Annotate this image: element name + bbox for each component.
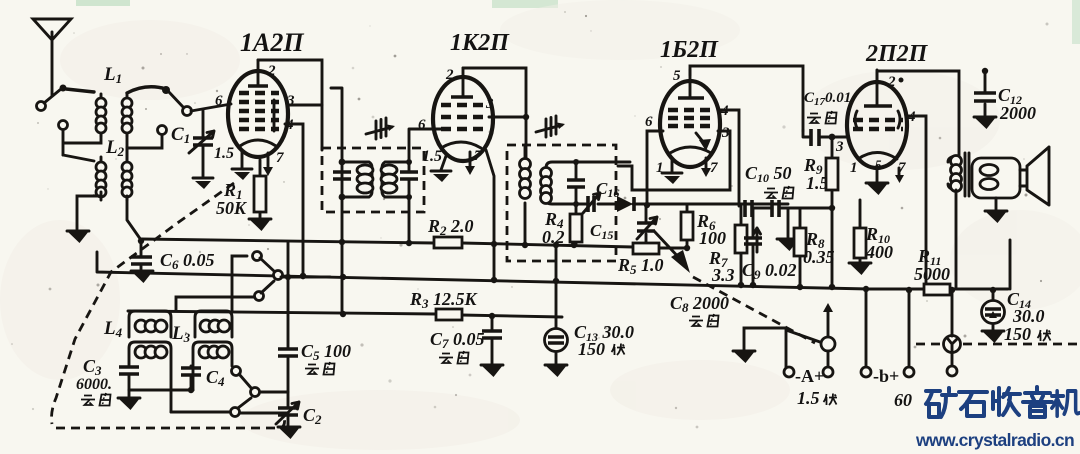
capacitor C5 [278, 242, 351, 407]
wire V1 pin4 down to AVC bus [285, 124, 306, 279]
svg-text:6: 6 [215, 93, 223, 109]
wire V4 pin7 arrow [895, 168, 904, 183]
capacitor C14 (electrolytic) [982, 289, 1045, 344]
capacitor C9 [742, 208, 797, 285]
mica label under C3 [81, 393, 111, 406]
svg-text:2: 2 [267, 63, 276, 79]
pin 3 label [286, 93, 295, 109]
wire V4 plate top [877, 71, 959, 156]
pin 3 label V3 [721, 125, 730, 141]
resistor R10 [854, 200, 893, 262]
svg-text:2: 2 [887, 74, 896, 90]
mica label under C10 [764, 186, 794, 199]
tube V2 1К2П label [450, 30, 510, 56]
svg-text:150: 150 [578, 339, 605, 359]
coil L3 secondary [193, 342, 232, 390]
resistor R9 [803, 137, 838, 287]
capacitor C17 [803, 90, 851, 146]
svg-text:7: 7 [276, 150, 284, 166]
speaker cone [1020, 147, 1049, 205]
svg-text:C8 2000: C8 2000 [670, 293, 729, 315]
wire V3 pin1 ground [662, 160, 682, 184]
wire V1 pin3 [287, 104, 322, 107]
watermark char shi 石 [959, 392, 987, 416]
resistor R4 [542, 204, 582, 247]
svg-text:C6 0.05: C6 0.05 [160, 250, 215, 272]
band switch S1a [253, 252, 331, 280]
ground under C6 [131, 271, 153, 283]
speaker magnet [972, 158, 1020, 198]
coil T2 secondary [541, 162, 631, 204]
capacitor C1 (variable) [171, 110, 214, 177]
svg-text:6: 6 [645, 114, 653, 130]
pin 4 label V3 [720, 103, 729, 119]
capacitor C10 (two series) [745, 163, 792, 217]
capacitor C3 [76, 356, 139, 393]
capacitor C-T1a [333, 172, 351, 179]
IF transformer T2 dashed box [507, 145, 616, 261]
svg-text:C170.01: C170.01 [804, 90, 851, 108]
svg-text:30.0: 30.0 [1012, 306, 1045, 326]
coil L2 [63, 137, 132, 200]
wire V3 pin7 arrow [701, 158, 711, 177]
wire V3 pins 3,4 [618, 131, 730, 190]
wire right end vertical [1009, 240, 1012, 289]
ground under C1 [193, 178, 213, 189]
wire V3 pin4 screen [719, 110, 739, 206]
ground under C14 [982, 331, 1004, 343]
svg-text:5: 5 [673, 68, 681, 84]
pin 7 label V3 [710, 160, 718, 176]
tube V1 internals [239, 60, 279, 146]
wire L1 top to grid junction [127, 86, 170, 94]
svg-text:3: 3 [286, 93, 295, 109]
svg-text:6000.: 6000. [76, 376, 112, 393]
trimmer C16 [576, 179, 619, 213]
svg-text:0.35: 0.35 [803, 247, 835, 267]
resistor R5 [617, 243, 664, 277]
coil L1 [96, 64, 132, 136]
coil L4 secondary [129, 342, 171, 412]
volt label C14 [1038, 330, 1052, 342]
svg-text:-b+: -b+ [873, 366, 899, 386]
ground under C13 [545, 365, 567, 377]
power switch [821, 303, 835, 368]
pin 4 label V4 [907, 109, 916, 125]
pin 1 label V4 [850, 160, 858, 176]
pin 2 label V2 [445, 67, 454, 83]
tube V1 envelope [228, 71, 288, 157]
antenna [33, 19, 71, 111]
tube V2 envelope [433, 77, 493, 161]
svg-text:2000: 2000 [999, 103, 1036, 123]
svg-text:www.crystalradio.cn: www.crystalradio.cn [915, 430, 1074, 450]
svg-text:1.5: 1.5 [214, 145, 234, 162]
tube V2 internals [441, 68, 487, 148]
wire oscillator bottom net [129, 387, 194, 393]
svg-text:3: 3 [835, 139, 844, 155]
IF transformer T1 dashed box [322, 148, 424, 212]
capacitor C-T1b [400, 159, 418, 200]
band switch S1d [171, 398, 288, 417]
oscillator coil L4 [103, 311, 171, 340]
svg-text:0.2: 0.2 [542, 227, 565, 247]
ground on return wire [733, 351, 755, 363]
capacitor C7 [430, 316, 502, 364]
svg-text:1Б2П: 1Б2П [660, 37, 719, 63]
ground under R1 [249, 219, 271, 231]
ground under C3 [118, 390, 140, 410]
ground tap after C10 [777, 208, 799, 251]
wire L2 bottom [77, 192, 141, 240]
switch arm to grid [168, 91, 231, 116]
watermark char ji 机 [1052, 391, 1079, 416]
watermark char kuang 矿 [926, 388, 956, 417]
tuning core arrow T1 [366, 118, 395, 139]
battery B terminals [861, 286, 914, 386]
svg-text:-A+: -A+ [795, 366, 824, 386]
svg-text:2: 2 [445, 67, 454, 83]
resistor R3 [409, 289, 479, 320]
ground return wire to switch [744, 328, 820, 367]
pin 7 label [276, 150, 284, 166]
svg-text:C7 0.05: C7 0.05 [430, 329, 485, 351]
capacitor C15 [567, 159, 613, 242]
svg-text:6: 6 [418, 117, 426, 133]
label 60 battery B [894, 390, 912, 410]
svg-text:400: 400 [865, 242, 893, 262]
svg-text:7: 7 [474, 148, 482, 164]
pilot lamp [944, 290, 961, 376]
resistor R1 [216, 160, 266, 218]
svg-text:2П2П: 2П2П [865, 41, 929, 67]
ground under V2 [431, 156, 451, 182]
detector diode [617, 196, 634, 212]
pin 5 label V3 [673, 68, 681, 84]
band switch S1c [232, 367, 289, 397]
dashed linkage right [916, 343, 1078, 346]
watermark char shou 收 [993, 388, 1020, 415]
svg-text:R2 2.0: R2 2.0 [427, 216, 474, 238]
svg-text:1.5: 1.5 [422, 148, 442, 165]
svg-text:R5 1.0: R5 1.0 [617, 255, 664, 277]
wire T1 bottom to bus [408, 197, 411, 243]
wire V2 cathode down [486, 150, 494, 280]
wire V1 plate top [258, 60, 322, 150]
wire V2 pin7 arrow [465, 152, 475, 175]
band switch S1b [176, 256, 274, 311]
pin 7 label V4 [898, 160, 906, 176]
pin 7 label V2 [474, 148, 482, 164]
svg-text:7: 7 [710, 160, 718, 176]
svg-text:1А2П: 1А2П [240, 28, 304, 57]
coil T1 secondary [381, 162, 409, 197]
main bus B (AVC/return) [97, 252, 1008, 293]
pin 4 label [285, 117, 294, 133]
tube V4 internals [853, 70, 903, 159]
pin 3 label V4 [835, 139, 844, 155]
svg-text:50K: 50K [216, 198, 248, 218]
volt label after 150 [612, 344, 626, 356]
svg-text:1К2П: 1К2П [450, 30, 510, 56]
resistor R2 [427, 216, 474, 248]
svg-text:C5 100: C5 100 [301, 341, 351, 363]
svg-text:C10 50: C10 50 [745, 163, 792, 185]
svg-text:100: 100 [699, 228, 726, 248]
capacitor C6 [131, 238, 215, 272]
pin 2 label [267, 63, 276, 79]
svg-text:C9 0.02: C9 0.02 [742, 260, 797, 282]
tube V3 envelope [660, 81, 720, 167]
wire grid V2 [409, 129, 441, 162]
ground under L2 [67, 231, 89, 243]
svg-text:1.5: 1.5 [797, 388, 820, 408]
svg-text:60: 60 [894, 390, 912, 410]
coil T1 primary [339, 159, 373, 201]
resistor R6 [681, 205, 726, 248]
ground under R10 [849, 263, 871, 275]
resistor R11 [914, 246, 950, 295]
mica label under C17 [807, 111, 837, 124]
pin 2 label V4 [887, 74, 904, 90]
pin 6 label V3 [645, 114, 653, 130]
mica label under C5 [305, 362, 335, 375]
mica label under C8 [689, 314, 719, 327]
watermark url [915, 430, 1074, 450]
capacitor C8 [637, 205, 729, 315]
tube V1 1А2П label [240, 28, 304, 57]
resistor R8 [794, 209, 835, 287]
tube V3 1Б2П label [660, 37, 719, 63]
ground under C2 [278, 427, 300, 439]
ground under transformer [985, 198, 1007, 223]
dashed gang line (tuning) [52, 183, 285, 428]
volume wiper arrow [654, 231, 690, 273]
wire V3 grid [644, 131, 663, 208]
resistor R7 [708, 206, 747, 285]
AF line [633, 204, 832, 208]
wire antenna to L1 [66, 89, 94, 92]
svg-text:150: 150 [1004, 324, 1031, 344]
wire V3 plate top [690, 66, 803, 131]
terminal node left [59, 121, 68, 130]
mica label under C7 [439, 351, 469, 364]
wire V1 pin7 with arrow [263, 153, 273, 176]
oscillator coil L3 [171, 311, 232, 345]
capacitor C2 (variable) [276, 402, 322, 427]
tuning core arrow T2 [536, 116, 565, 137]
svg-text:1: 1 [850, 160, 858, 176]
label 1.5 V battery [797, 388, 837, 408]
coil T2 primary [520, 145, 531, 245]
capacitor C4 [181, 366, 225, 390]
battery A terminals [784, 366, 833, 386]
label 1.5 V2 [422, 148, 442, 165]
capacitor C13 (electrolytic) [545, 245, 635, 364]
output transformer T3 [948, 153, 969, 288]
label 1.5 (tube V1 filament) [214, 145, 234, 162]
main bus A (volume line) [141, 239, 690, 251]
ground under V1 cathode [232, 150, 252, 180]
ground under C7 [481, 365, 503, 377]
pin 6 label [215, 93, 223, 109]
tube V3 internals [668, 70, 712, 153]
wire osc line x342 [331, 88, 342, 314]
watermark char yin 音 [1023, 387, 1052, 417]
wire L1 bottoms [63, 130, 127, 160]
pin 1 label V3 [656, 160, 664, 176]
wire V2 plate top [463, 68, 526, 162]
svg-text:3.3: 3.3 [711, 265, 735, 285]
svg-text:5000: 5000 [914, 264, 950, 284]
dashed link to switch [693, 277, 815, 343]
main bus C (oscillator line) [128, 311, 562, 319]
tube V4 envelope [847, 82, 907, 168]
ground under C12 [974, 117, 996, 129]
wire V2 pin3 [489, 114, 529, 120]
pin 6 label V2 [418, 117, 426, 133]
tube V4 2П2П label [865, 41, 929, 67]
svg-text:3: 3 [485, 96, 494, 112]
capacitor C12 [974, 68, 1036, 123]
terminal node right (to C1 wire) [127, 126, 167, 161]
pin 3 label V2 [485, 96, 494, 112]
pin 5 label V4 [875, 157, 882, 172]
wire V4 screen pin4 [906, 116, 926, 288]
ground under V4 [866, 166, 888, 195]
